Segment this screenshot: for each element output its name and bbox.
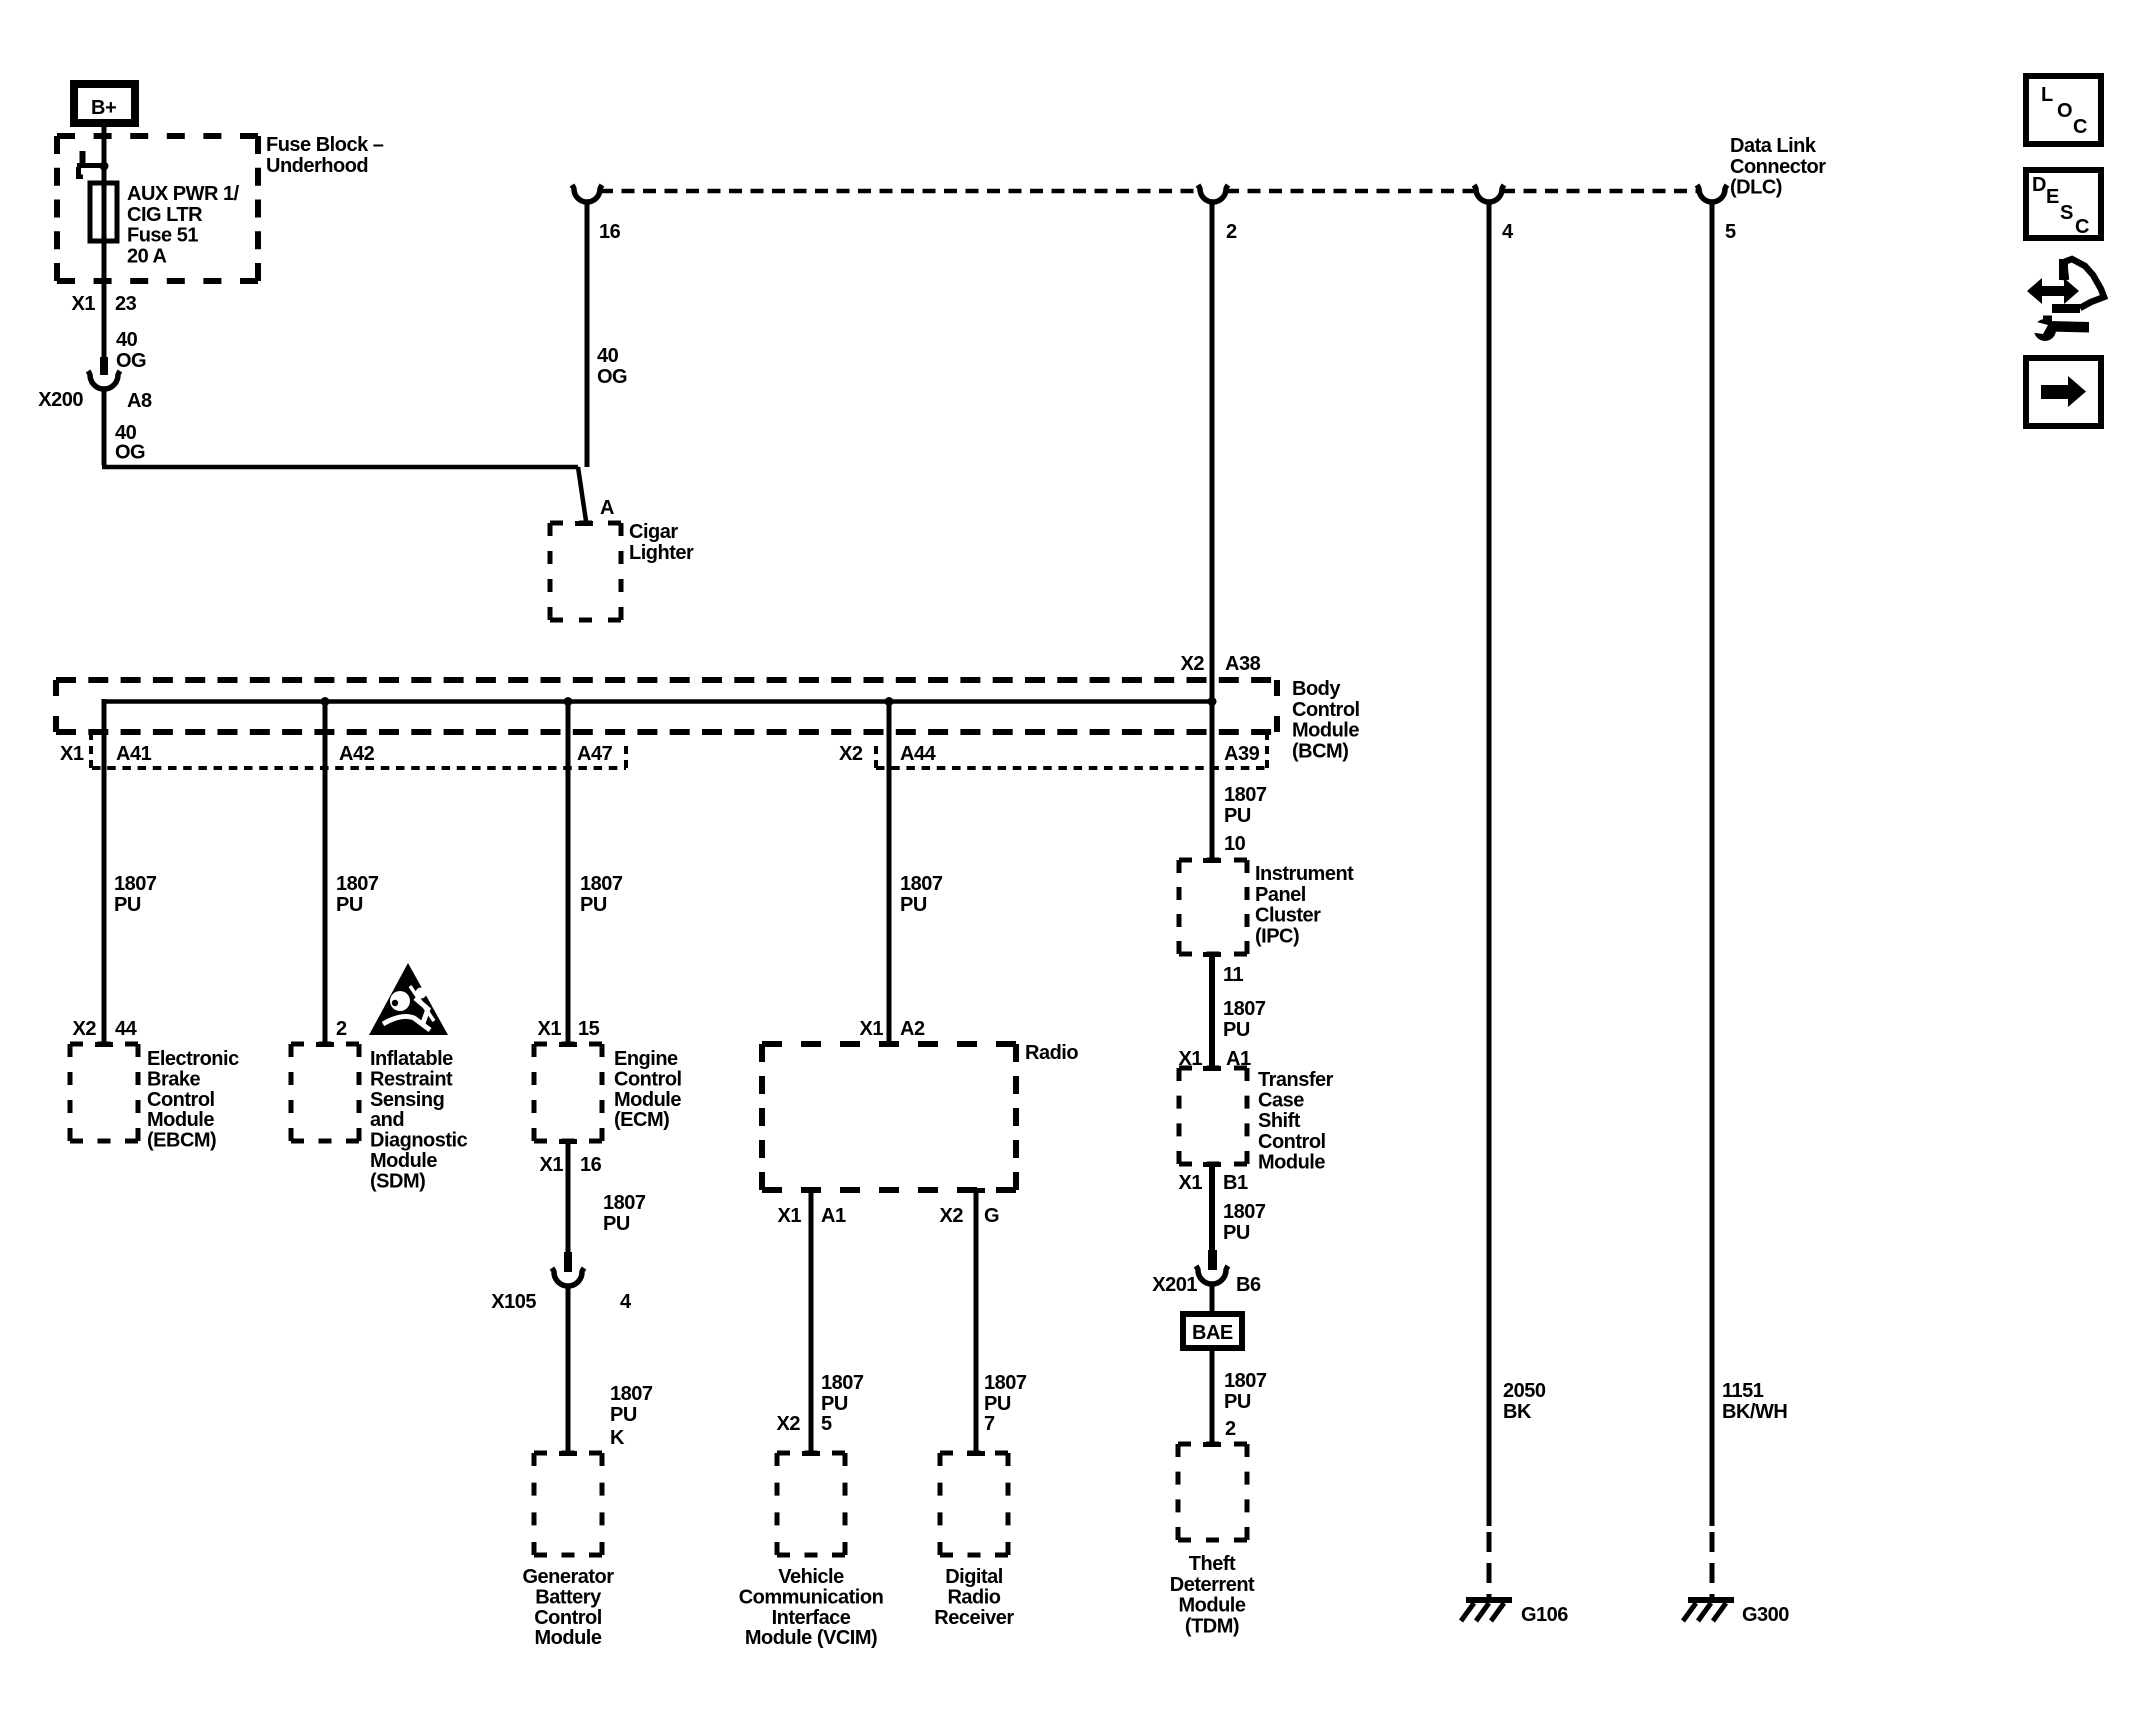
fuse holder terminal clip	[80, 151, 86, 164]
svg-text:Battery: Battery	[535, 1586, 602, 1608]
junction dot A44	[885, 697, 894, 706]
svg-text:Case: Case	[1258, 1090, 1304, 1112]
svg-text:5: 5	[1725, 221, 1736, 243]
svg-text:E: E	[2046, 186, 2059, 208]
ECM dashed box	[559, 1042, 577, 1047]
EBCM dashed box	[95, 1042, 113, 1047]
svg-text:A: A	[600, 497, 614, 519]
radio dashed box	[880, 1042, 898, 1047]
connector X201 pin B6	[1208, 1250, 1217, 1270]
svg-text:1807: 1807	[1224, 1370, 1267, 1392]
svg-text:Control: Control	[1292, 699, 1360, 721]
IPC dashed box	[1203, 858, 1221, 863]
splice BAE box	[1183, 1314, 1242, 1348]
svg-text:Module: Module	[1179, 1595, 1246, 1617]
VCIM dashed box	[802, 1451, 820, 1456]
wire B+ to fuse	[102, 123, 107, 183]
svg-text:1807: 1807	[984, 1372, 1027, 1394]
svg-text:5: 5	[821, 1413, 832, 1435]
svg-text:Module (VCIM): Module (VCIM)	[745, 1627, 877, 1649]
svg-text:G: G	[984, 1205, 999, 1227]
svg-text:2: 2	[1225, 1418, 1236, 1440]
svg-text:Diagnostic: Diagnostic	[370, 1130, 468, 1152]
DLC terminal 4	[1474, 185, 1504, 202]
svg-text:OG: OG	[115, 442, 145, 464]
svg-text:X2: X2	[839, 743, 863, 765]
svg-text:Cluster: Cluster	[1255, 905, 1321, 927]
svg-text:X1: X1	[1179, 1172, 1203, 1194]
svg-text:Module: Module	[614, 1089, 681, 1111]
svg-text:44: 44	[115, 1018, 138, 1040]
svg-text:1807: 1807	[1224, 784, 1267, 806]
svg-text:4: 4	[620, 1291, 632, 1313]
svg-text:O: O	[2057, 100, 2072, 122]
svg-text:A38: A38	[1225, 653, 1261, 675]
svg-text:AUX PWR 1/: AUX PWR 1/	[127, 183, 240, 205]
svg-text:2: 2	[1226, 221, 1237, 243]
svg-text:Body: Body	[1292, 678, 1341, 700]
svg-text:G300: G300	[1742, 1604, 1789, 1626]
svg-text:40: 40	[597, 345, 619, 367]
wire BAE to TDM	[1210, 1348, 1215, 1444]
svg-text:Transfer: Transfer	[1258, 1069, 1334, 1091]
next-page arrow icon box	[2026, 358, 2101, 426]
svg-text:Interface: Interface	[772, 1607, 851, 1629]
svg-text:1807: 1807	[336, 873, 379, 895]
fuse block dashed box (Fuse Block - Underhood)	[57, 133, 258, 139]
diagnostic icon: double arrow, outline blob, wrench	[2064, 259, 2104, 308]
svg-text:Sensing: Sensing	[370, 1089, 444, 1111]
svg-text:PU: PU	[336, 894, 363, 916]
svg-text:X2: X2	[940, 1205, 964, 1227]
wire BCM A44 to Radio	[887, 702, 892, 1045]
svg-text:Electronic: Electronic	[147, 1048, 239, 1070]
svg-text:B1: B1	[1223, 1172, 1248, 1194]
svg-text:OG: OG	[597, 366, 627, 388]
svg-text:Engine: Engine	[614, 1048, 678, 1070]
svg-text:1807: 1807	[1223, 998, 1266, 1020]
svg-text:L: L	[2041, 84, 2053, 106]
wire X105 to generator battery control module	[566, 1284, 571, 1453]
svg-text:A39: A39	[1224, 743, 1260, 765]
svg-text:X1: X1	[538, 1018, 562, 1040]
svg-text:PU: PU	[1223, 1019, 1250, 1041]
svg-text:(ECM): (ECM)	[614, 1109, 669, 1131]
svg-text:23: 23	[115, 293, 137, 315]
svg-text:Module: Module	[1292, 720, 1359, 742]
svg-text:Fuse 51: Fuse 51	[127, 225, 198, 247]
svg-text:PU: PU	[114, 894, 141, 916]
svg-text:Radio: Radio	[947, 1586, 1000, 1608]
svg-text:A41: A41	[116, 743, 152, 765]
svg-text:Module: Module	[1258, 1151, 1325, 1173]
svg-text:15: 15	[578, 1018, 600, 1040]
svg-text:G106: G106	[1521, 1604, 1568, 1626]
svg-text:Fuse Block –: Fuse Block –	[266, 134, 384, 156]
svg-text:BK: BK	[1503, 1401, 1532, 1423]
svg-text:and: and	[370, 1109, 404, 1131]
cigar lighter dashed box	[575, 521, 593, 526]
svg-text:Restraint: Restraint	[370, 1068, 453, 1090]
radio pin X1 A1	[802, 1188, 820, 1193]
wire 16 from DLC	[585, 200, 590, 467]
BCM connector strip X1	[92, 766, 626, 770]
svg-text:A42: A42	[339, 743, 375, 765]
svg-text:7: 7	[984, 1413, 995, 1435]
svg-text:PU: PU	[603, 1213, 630, 1235]
svg-text:Cigar: Cigar	[629, 521, 678, 543]
junction dot A47	[564, 697, 573, 706]
pin label X1 16	[559, 1139, 577, 1144]
DLC terminal 5	[1697, 185, 1727, 202]
svg-text:16: 16	[580, 1154, 602, 1176]
svg-text:Generator: Generator	[522, 1566, 614, 1588]
svg-text:X200: X200	[38, 389, 83, 411]
svg-text:Lighter: Lighter	[629, 542, 694, 564]
svg-text:Digital: Digital	[945, 1566, 1003, 1588]
svg-text:PU: PU	[1224, 805, 1251, 827]
svg-text:4: 4	[1502, 221, 1514, 243]
power symbol B+	[74, 84, 135, 123]
svg-text:Theft: Theft	[1189, 1553, 1236, 1575]
svg-text:PU: PU	[580, 894, 607, 916]
svg-text:Control: Control	[1258, 1131, 1326, 1153]
svg-text:X2: X2	[1181, 653, 1205, 675]
svg-text:BAE: BAE	[1192, 1322, 1233, 1344]
wire X200 to cigar lighter	[102, 387, 107, 465]
svg-text:1807: 1807	[821, 1372, 864, 1394]
svg-text:A1: A1	[821, 1205, 846, 1227]
svg-text:X105: X105	[491, 1291, 536, 1313]
pin label 11	[1203, 952, 1221, 957]
svg-text:B6: B6	[1236, 1274, 1261, 1296]
wire radio A1 to VCIM	[809, 1190, 814, 1453]
transfer case shift control module dashed box	[1203, 1066, 1221, 1071]
svg-text:PU: PU	[1224, 1391, 1251, 1413]
wire BCM A41 to EBCM	[102, 699, 107, 1044]
svg-text:PU: PU	[821, 1393, 848, 1415]
svg-text:CIG LTR: CIG LTR	[127, 204, 203, 226]
svg-text:PU: PU	[900, 894, 927, 916]
svg-text:Brake: Brake	[147, 1068, 200, 1090]
svg-text:10: 10	[1224, 833, 1246, 855]
svg-text:PU: PU	[1223, 1222, 1250, 1244]
svg-text:Shift: Shift	[1258, 1110, 1301, 1132]
svg-text:A47: A47	[577, 743, 613, 765]
ground G300	[1688, 1597, 1734, 1603]
svg-text:1151: 1151	[1722, 1380, 1764, 1402]
svg-text:Radio: Radio	[1025, 1042, 1078, 1064]
svg-text:16: 16	[599, 221, 621, 243]
SDM dashed box	[316, 1042, 334, 1047]
svg-text:(EBCM): (EBCM)	[147, 1130, 216, 1152]
svg-text:(DLC): (DLC)	[1730, 177, 1782, 199]
BCM internal bus wire	[104, 699, 1212, 704]
fuse F51 AUX PWR 1/CIG LTR 20A	[102, 183, 107, 241]
wire X201 to BAE splice	[1210, 1282, 1215, 1314]
wire ECM to X105	[566, 1141, 571, 1252]
svg-text:(SDM): (SDM)	[370, 1170, 425, 1192]
radio pin X2 G	[967, 1188, 985, 1193]
svg-text:S: S	[2060, 202, 2073, 224]
svg-text:Control: Control	[614, 1068, 682, 1090]
svg-text:D: D	[2032, 174, 2046, 196]
svg-text:K: K	[610, 1427, 625, 1449]
svg-text:(IPC): (IPC)	[1255, 925, 1299, 947]
svg-text:X1: X1	[540, 1154, 564, 1176]
junction dot on fuse feed	[100, 162, 109, 171]
BCM outer dashed box	[56, 677, 1277, 683]
svg-text:1807: 1807	[603, 1192, 646, 1214]
junction dot A38/A39	[1208, 697, 1217, 706]
svg-text:B+: B+	[91, 97, 116, 119]
DESC icon box	[2026, 170, 2101, 238]
SRS warning triangle icon	[369, 963, 448, 1035]
wire BCM A47 to ECM	[566, 702, 571, 1045]
svg-text:1807: 1807	[580, 873, 623, 895]
svg-text:X2: X2	[777, 1413, 801, 1435]
wire BCM A39 to IPC	[1210, 200, 1215, 860]
svg-text:Vehicle: Vehicle	[778, 1566, 844, 1588]
svg-text:Control: Control	[147, 1089, 215, 1111]
svg-text:Module: Module	[370, 1150, 437, 1172]
svg-text:Module: Module	[535, 1627, 602, 1649]
wire DLC 4 to G106	[1487, 200, 1492, 1526]
connector X105 pin 4	[564, 1252, 572, 1272]
svg-text:40: 40	[116, 329, 138, 351]
wire BCM A42 to SDM	[323, 702, 328, 1045]
DLC terminal 16	[572, 185, 602, 202]
wire IPC to transfer case module	[1209, 954, 1215, 1068]
svg-text:C: C	[2073, 116, 2087, 138]
DLC dashed bus wire	[600, 189, 1200, 194]
pin label X1 B1	[1203, 1162, 1221, 1167]
svg-text:1807: 1807	[1223, 1201, 1266, 1223]
svg-text:Deterrent: Deterrent	[1170, 1574, 1255, 1596]
svg-text:X1: X1	[860, 1018, 884, 1040]
theft deterrent module dashed box	[1203, 1442, 1221, 1447]
svg-text:X2: X2	[73, 1018, 97, 1040]
svg-text:2050: 2050	[1503, 1380, 1546, 1402]
svg-text:1807: 1807	[610, 1383, 653, 1405]
svg-text:X201: X201	[1152, 1274, 1197, 1296]
BCM connector strip X2	[876, 766, 1267, 770]
svg-text:PU: PU	[984, 1393, 1011, 1415]
svg-text:PU: PU	[610, 1404, 637, 1426]
wire radio G to digital radio receiver	[974, 1190, 979, 1453]
wire DLC 5 to G300	[1710, 200, 1715, 1526]
svg-text:2: 2	[336, 1018, 347, 1040]
wire fuse to X1 pin 23	[102, 241, 107, 357]
svg-text:X1: X1	[60, 743, 84, 765]
svg-text:Control: Control	[534, 1607, 602, 1629]
svg-text:(BCM): (BCM)	[1292, 740, 1348, 762]
svg-text:Instrument: Instrument	[1255, 863, 1354, 885]
svg-text:Module: Module	[147, 1109, 214, 1131]
svg-text:Receiver: Receiver	[934, 1607, 1014, 1629]
svg-text:X1: X1	[778, 1205, 802, 1227]
svg-text:X1: X1	[72, 293, 96, 315]
svg-text:A44: A44	[900, 743, 937, 765]
junction dot A42	[321, 697, 330, 706]
svg-text:Data Link: Data Link	[1730, 135, 1817, 157]
svg-text:A8: A8	[127, 390, 152, 412]
DLC terminal 2	[1198, 185, 1228, 202]
svg-text:A2: A2	[900, 1018, 925, 1040]
svg-text:Connector: Connector	[1730, 156, 1826, 178]
svg-text:BK/WH: BK/WH	[1722, 1401, 1787, 1423]
LOC icon box	[2026, 76, 2101, 144]
svg-text:1807: 1807	[900, 873, 943, 895]
svg-text:Underhood: Underhood	[266, 155, 368, 177]
svg-text:OG: OG	[116, 350, 146, 372]
digital radio receiver dashed box	[967, 1451, 985, 1456]
svg-text:11: 11	[1223, 964, 1244, 986]
svg-text:Panel: Panel	[1255, 884, 1306, 906]
wire transfer case to X201	[1209, 1164, 1215, 1250]
svg-text:(TDM): (TDM)	[1185, 1615, 1239, 1637]
connector X200 pin A8	[100, 357, 108, 375]
svg-text:Inflatable: Inflatable	[370, 1048, 453, 1070]
svg-text:20 A: 20 A	[127, 245, 167, 267]
svg-text:1807: 1807	[114, 873, 157, 895]
ground G106	[1466, 1597, 1512, 1603]
svg-text:C: C	[2075, 216, 2089, 238]
svg-text:Communication: Communication	[739, 1586, 884, 1608]
generator battery control module dashed box	[559, 1451, 577, 1456]
